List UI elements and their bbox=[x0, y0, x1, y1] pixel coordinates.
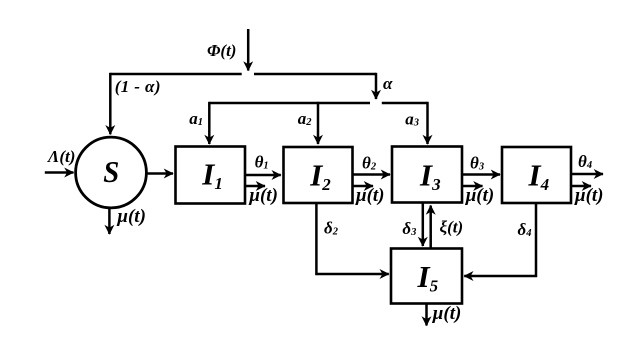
svg-text:μ(t): μ(t) bbox=[248, 185, 278, 206]
wire second horizontal distribution line right segment bbox=[382, 102, 428, 105]
wire mu(t) outflow from I1 bbox=[245, 185, 265, 188]
svg-text:a1: a1 bbox=[189, 109, 203, 128]
svg-text:S: S bbox=[103, 155, 119, 189]
wire second horizontal distribution line left segment bbox=[209, 102, 370, 105]
svg-text:μ(t): μ(t) bbox=[116, 206, 145, 227]
wire theta4 output arrow from I4 bbox=[571, 173, 603, 176]
node S compartment circle bbox=[76, 137, 147, 208]
svg-text:(1 - α): (1 - α) bbox=[115, 77, 161, 96]
wire mu(t) outflow from I2 bbox=[353, 185, 374, 188]
wire theta3 arrow I3 to I4 bbox=[462, 173, 500, 176]
wire top horizontal distribution line left segment bbox=[110, 73, 241, 76]
svg-text:θ2: θ2 bbox=[362, 154, 377, 173]
svg-text:δ2: δ2 bbox=[324, 218, 339, 237]
node I2 compartment box bbox=[284, 147, 353, 203]
wire delta3 arrow I3 down to I5 bbox=[422, 203, 425, 247]
wire mu(t) outflow from I3 bbox=[462, 185, 483, 188]
svg-text:μ(t): μ(t) bbox=[432, 303, 462, 324]
wire alpha branch down to second line bbox=[375, 73, 378, 99]
node I5 compartment box bbox=[391, 249, 462, 304]
svg-text:δ3: δ3 bbox=[402, 219, 416, 238]
svg-text:a2: a2 bbox=[298, 109, 313, 128]
svg-text:μ(t): μ(t) bbox=[574, 185, 604, 206]
svg-text:μ(t): μ(t) bbox=[465, 185, 495, 206]
wire theta2 arrow I2 to I3 bbox=[353, 173, 391, 176]
svg-text:μ(t): μ(t) bbox=[355, 185, 385, 206]
wire xi(t) arrow I5 up to I3 bbox=[429, 206, 432, 249]
wire Lambda(t) input arrow bbox=[45, 171, 74, 174]
wire (1-alpha) branch down to S bbox=[109, 73, 112, 135]
node I4 compartment box bbox=[502, 147, 571, 203]
svg-text:Λ(t): Λ(t) bbox=[47, 147, 75, 166]
svg-text:θ3: θ3 bbox=[470, 154, 484, 173]
wire delta2 connector I2 to I5 bbox=[316, 204, 388, 275]
svg-text:δ4: δ4 bbox=[518, 220, 532, 239]
wire theta1 arrow I1 to I2 bbox=[245, 174, 281, 177]
node I1 compartment box bbox=[176, 147, 246, 204]
wire mu(t) outflow below S bbox=[108, 208, 111, 234]
wire Phi(t) inflow vertical arrow bbox=[247, 29, 250, 71]
node I3 compartment box bbox=[392, 147, 462, 203]
svg-text:θ1: θ1 bbox=[255, 153, 269, 172]
wire a2 drop into I2 bbox=[317, 102, 320, 144]
svg-text:α: α bbox=[383, 74, 393, 93]
wire a1 drop into I1 bbox=[208, 102, 211, 144]
svg-text:a3: a3 bbox=[405, 110, 419, 129]
wire delta4 connector I4 to I5 bbox=[464, 204, 536, 277]
wire S to I1 arrow bbox=[146, 172, 173, 175]
svg-text:Φ(t): Φ(t) bbox=[207, 41, 236, 60]
wire mu(t) outflow below I5 bbox=[425, 304, 428, 326]
wire mu(t) outflow from I4 bbox=[571, 185, 591, 188]
wire top horizontal distribution line right segment bbox=[254, 73, 376, 76]
svg-text:θ4: θ4 bbox=[578, 152, 592, 171]
svg-text:ξ(t): ξ(t) bbox=[440, 218, 464, 237]
wire a3 drop into I3 bbox=[426, 102, 429, 144]
